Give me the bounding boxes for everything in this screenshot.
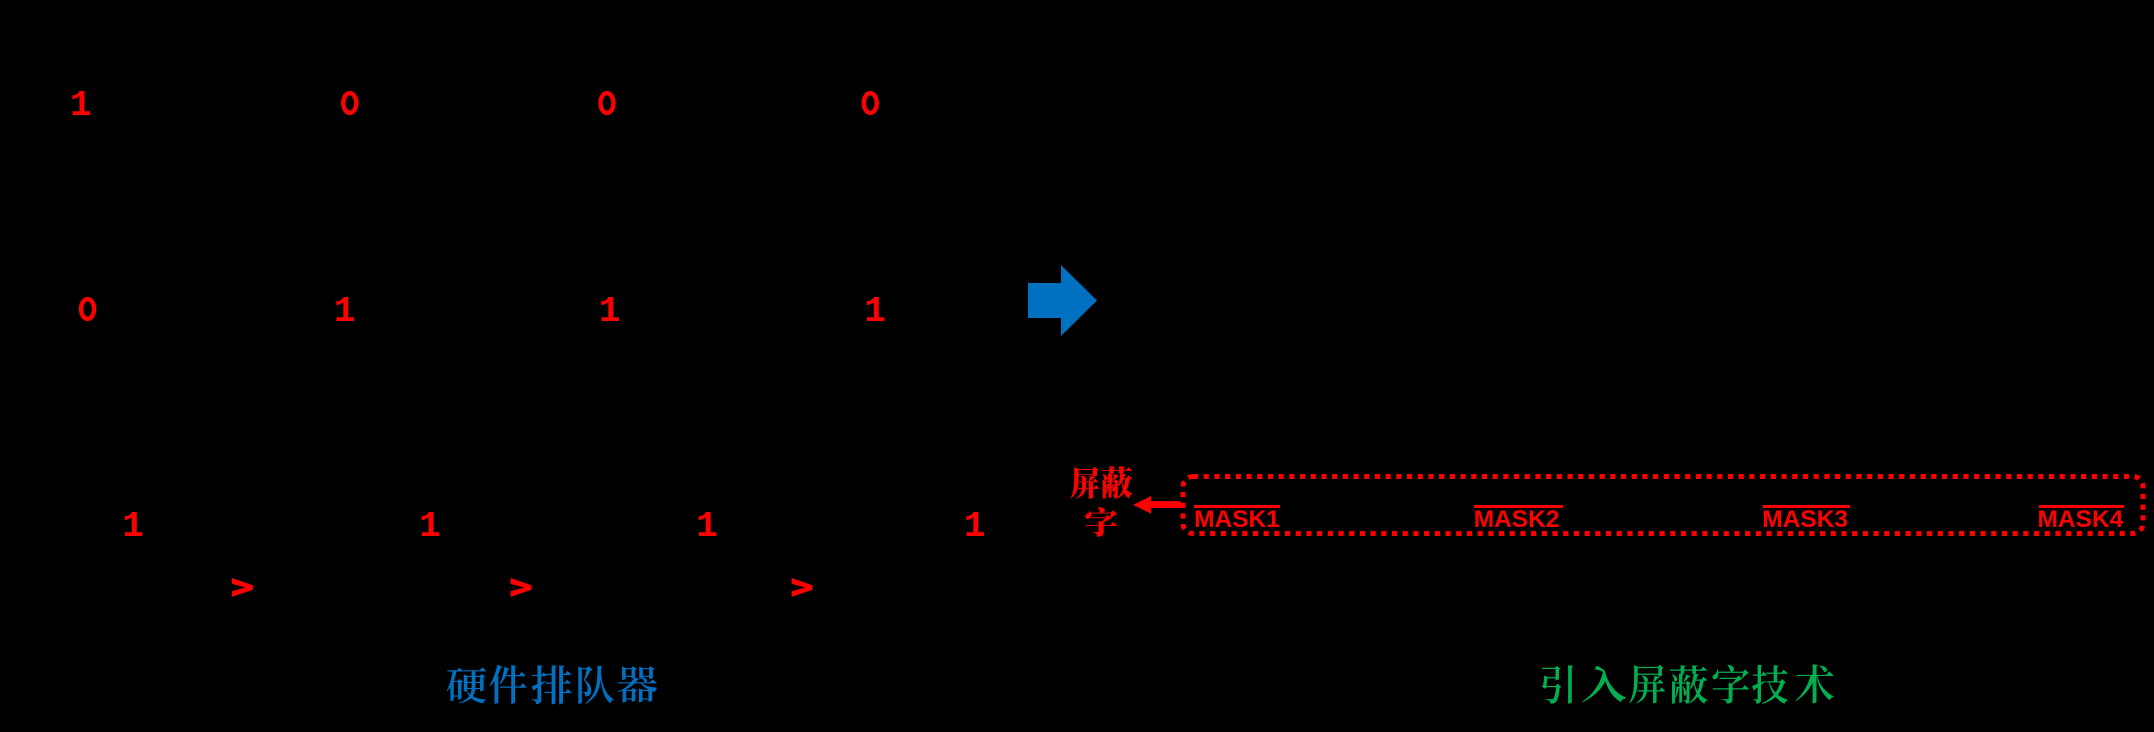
caption char 字 (green) (1712, 665, 1749, 704)
label MASK1 (1194, 508, 1280, 533)
caption char 入 (green) (1582, 666, 1626, 702)
digit 1 (request row 3, col 4) (964, 509, 986, 545)
caption char 器 (blue) (618, 666, 658, 702)
digit 1 (request row 1, col 1) (70, 88, 92, 124)
overline MASK1 (1194, 505, 1279, 508)
label char 字 (red) (1085, 507, 1117, 537)
overline MASK2 (1474, 505, 1563, 508)
big blue arrow (1028, 265, 1097, 336)
digit 0 (request row 1, col 3) (601, 93, 614, 113)
digit 1 (request row 2, col 4) (864, 294, 886, 330)
caption char 术 (green) (1796, 664, 1834, 703)
digit 1 (request row 3, col 1) (122, 509, 144, 545)
greater-than mark (232, 578, 253, 597)
caption char 蔽 (green) (1670, 665, 1708, 704)
red arrow to mask word label (1133, 496, 1181, 514)
digit 1 (request row 2, col 3) (599, 294, 621, 330)
label MASK2 (1474, 508, 1560, 533)
digit 1 (request row 3, col 2) (419, 509, 441, 545)
greater-than mark (792, 578, 813, 597)
caption char 屏 (green) (1629, 665, 1665, 704)
greater-than mark (511, 578, 532, 597)
label char 屏 (red) (1071, 467, 1100, 499)
overline MASK4 (2039, 505, 2124, 508)
caption char 件 (blue) (489, 665, 526, 704)
digit 0 (request row 1, col 4) (864, 93, 877, 113)
label MASK3 (1762, 508, 1848, 533)
caption char 队 (blue) (578, 666, 614, 704)
caption char 技 (green) (1752, 665, 1788, 704)
red dotted mask-register box (1183, 477, 2143, 534)
overline MASK3 (1763, 505, 1850, 508)
digit 0 (request row 1, col 2) (343, 93, 356, 113)
label char 蔽 (red) (1101, 466, 1132, 498)
caption char 排 (blue) (532, 665, 572, 704)
caption char 硬 (blue) (447, 667, 486, 703)
label MASK4 (2038, 508, 2124, 533)
caption char 引 (green) (1542, 665, 1573, 704)
digit 0 (request row 2, col 1) (81, 299, 94, 319)
digit 1 (request row 2, col 2) (334, 294, 356, 330)
digit 1 (request row 3, col 3) (696, 509, 718, 545)
